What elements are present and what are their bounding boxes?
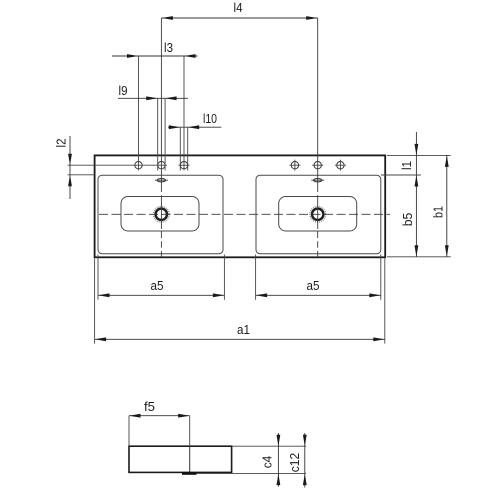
svg-text:l9: l9 bbox=[119, 83, 128, 98]
svg-text:b1: b1 bbox=[430, 206, 445, 218]
svg-text:a1: a1 bbox=[237, 322, 250, 337]
right basin bowl outline bbox=[256, 175, 381, 254]
right basin faucet hole 3 bbox=[335, 160, 346, 171]
dimension l9 bbox=[118, 83, 188, 171]
dimension b1 bbox=[430, 155, 448, 256]
left basin faucet hole 2 (middle) bbox=[158, 162, 165, 169]
dimension c12 bbox=[287, 433, 307, 488]
dimension b5 bbox=[400, 213, 418, 257]
svg-text:f5: f5 bbox=[144, 399, 155, 414]
drain stub under side profile bbox=[182, 472, 197, 475]
dimension l2 bbox=[53, 136, 167, 199]
right basin faucet hole 1 bbox=[289, 160, 300, 171]
dimension l10 bbox=[168, 111, 221, 171]
svg-text:c12: c12 bbox=[287, 453, 302, 473]
svg-text:l10: l10 bbox=[203, 111, 217, 126]
right basin vertical centerline bbox=[317, 18, 319, 257]
dimension c4 bbox=[259, 433, 280, 487]
left basin vertical centerline bbox=[160, 18, 162, 257]
outer ceramic outline (top view) bbox=[95, 155, 386, 257]
dimension l1 bbox=[399, 132, 418, 257]
svg-text:b5: b5 bbox=[400, 213, 415, 227]
right basin faucet hole 2 (middle) bbox=[312, 162, 323, 169]
left basin bowl outline bbox=[98, 175, 223, 254]
svg-text:l4: l4 bbox=[234, 0, 243, 15]
dimension l4 bbox=[161, 0, 317, 20]
svg-text:l3: l3 bbox=[164, 40, 173, 55]
svg-text:c4: c4 bbox=[259, 456, 274, 469]
dimension a5 right bbox=[256, 255, 381, 300]
svg-text:l1: l1 bbox=[399, 161, 414, 170]
dimension a1 bbox=[95, 259, 385, 344]
side profile bottom lip line bbox=[190, 473, 306, 475]
right drain bbox=[310, 206, 326, 222]
svg-text:l2: l2 bbox=[53, 139, 68, 148]
right overflow hole bbox=[311, 179, 324, 182]
left basin faucet hole 1 bbox=[135, 162, 142, 169]
right basin bottom rectangle bbox=[279, 197, 357, 232]
svg-text:a5: a5 bbox=[151, 278, 164, 293]
side profile outline bbox=[129, 446, 232, 472]
left overflow hole bbox=[155, 179, 168, 182]
left drain bbox=[153, 206, 169, 222]
left basin bottom rectangle bbox=[121, 197, 199, 232]
side profile divider bbox=[189, 446, 191, 473]
dimension f5 bbox=[129, 399, 190, 446]
left basin faucet hole 3 bbox=[179, 162, 190, 169]
dimension l3 bbox=[112, 40, 198, 171]
side profile top extension line bbox=[232, 445, 307, 447]
horizontal centerline through drains (dashed) bbox=[99, 213, 390, 215]
svg-text:a5: a5 bbox=[307, 278, 320, 293]
dimension a5 left bbox=[98, 255, 224, 300]
right side extension lines bbox=[381, 155, 451, 256]
